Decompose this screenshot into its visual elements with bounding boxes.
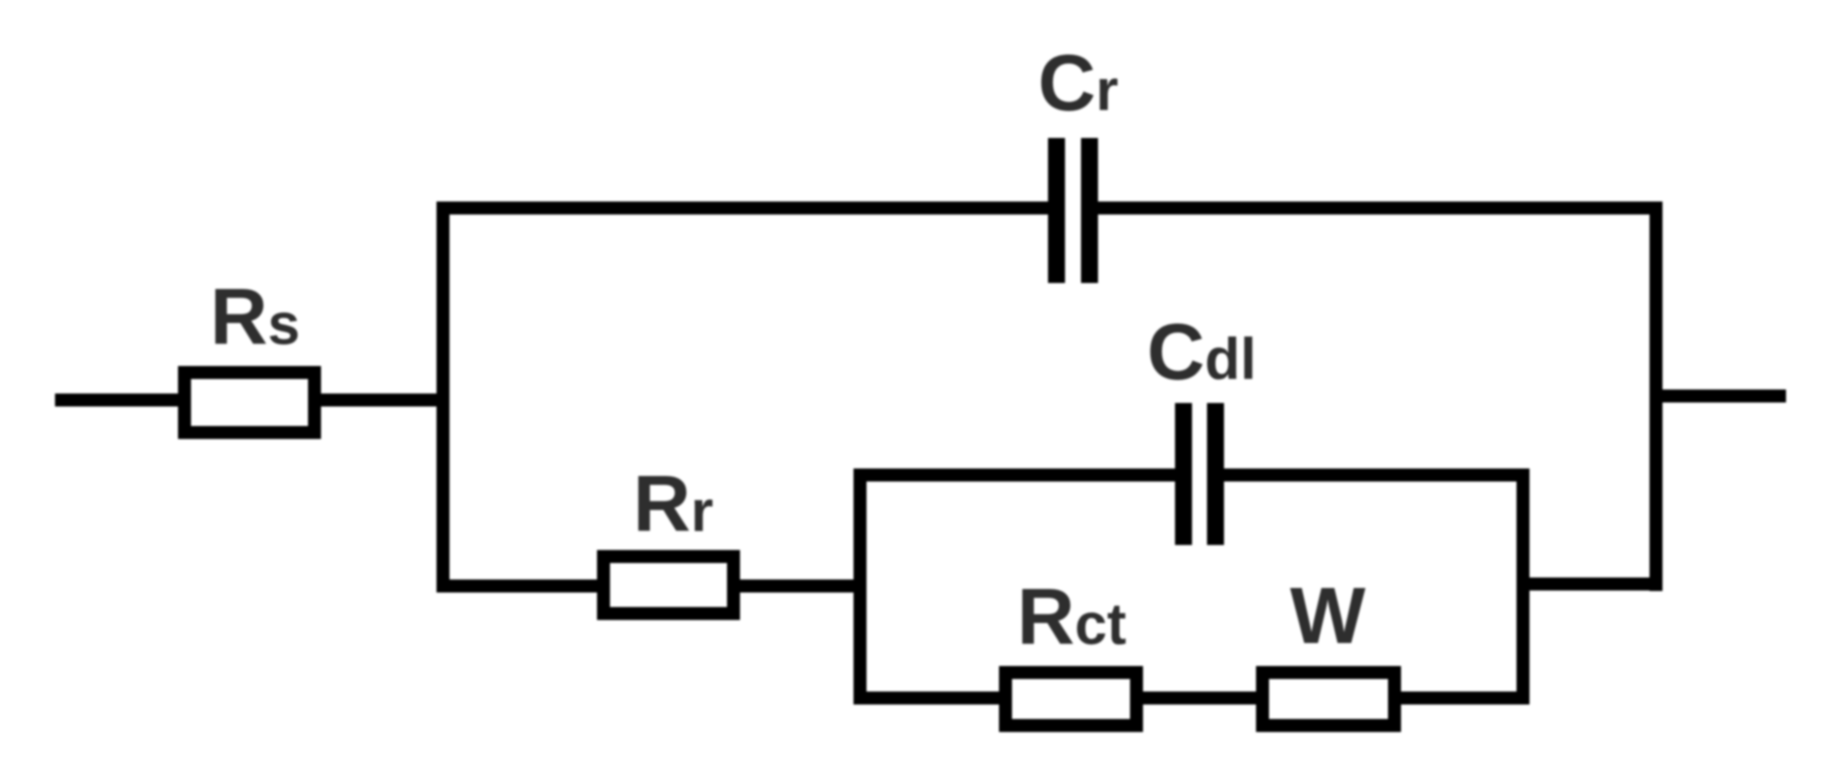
node A left junction vertical <box>437 202 450 593</box>
svg-text:Rs: Rs <box>210 272 300 361</box>
resistor Rs <box>185 373 315 433</box>
wire right outer vertical <box>1650 202 1663 592</box>
wire output lead <box>1656 390 1786 403</box>
wire subnet left vertical <box>854 469 867 705</box>
wire Rs to node A <box>321 394 449 407</box>
resistor Rct <box>1006 673 1137 726</box>
capacitor Cr <box>1048 138 1098 283</box>
capacitor Cdl <box>1175 403 1224 545</box>
svg-text:W: W <box>1290 571 1366 660</box>
wire input lead <box>55 394 185 407</box>
wire top branch left of Cr <box>437 202 1049 215</box>
svg-text:Cr: Cr <box>1038 38 1118 127</box>
wire top branch right of Cr <box>1098 202 1663 215</box>
wire subnet bottom rail <box>854 692 1530 705</box>
wire subnet top right of Cdl <box>1224 469 1530 482</box>
resistor W (Warburg) <box>1263 673 1395 726</box>
svg-text:Rr: Rr <box>633 459 713 548</box>
resistor Rr <box>604 557 734 614</box>
wire Rr to subnet <box>740 580 866 593</box>
wire bottom branch node A to Rr <box>437 580 605 593</box>
wire subnet to right vertical <box>1523 578 1656 591</box>
wire subnet right vertical <box>1517 469 1530 705</box>
svg-text:Rct: Rct <box>1017 572 1126 661</box>
svg-text:Cdl: Cdl <box>1147 307 1256 396</box>
wire subnet top left of Cdl <box>854 469 1176 482</box>
